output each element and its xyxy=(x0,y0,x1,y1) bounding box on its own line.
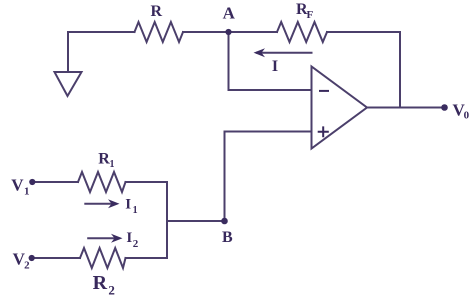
resistor R xyxy=(135,22,184,42)
resistor R2 xyxy=(80,248,126,268)
node A junction dot xyxy=(225,29,231,35)
svg-text:A: A xyxy=(223,4,236,23)
wire V1 to R1 xyxy=(32,181,78,183)
op-amp plus sign xyxy=(319,127,328,136)
wire junction to node B xyxy=(167,220,225,222)
svg-text:1: 1 xyxy=(110,159,115,170)
svg-text:2: 2 xyxy=(108,283,115,298)
svg-text:F: F xyxy=(307,9,314,21)
svg-text:I: I xyxy=(125,197,131,213)
terminal dot V1 xyxy=(29,179,35,185)
resistor RF xyxy=(277,22,327,42)
node B junction dot xyxy=(221,218,228,225)
svg-text:0: 0 xyxy=(464,110,470,122)
resistor R1 xyxy=(78,172,126,192)
wire ground riser xyxy=(68,32,135,72)
arrowhead of I2 xyxy=(111,234,123,243)
svg-text:I: I xyxy=(272,58,278,75)
arrowhead of I1 xyxy=(108,199,120,208)
wire RF to feedback corner xyxy=(327,32,400,108)
svg-text:1: 1 xyxy=(24,186,30,198)
wire R2 to bus xyxy=(126,257,168,259)
current arrow I2 line xyxy=(88,237,116,239)
svg-text:B: B xyxy=(222,229,233,246)
op-amp minus sign xyxy=(320,90,328,92)
svg-text:R: R xyxy=(151,3,163,20)
svg-text:2: 2 xyxy=(24,260,30,272)
wire node B up to non-inverting input xyxy=(225,132,312,222)
op-amp U1 xyxy=(312,67,368,149)
wire op-amp output xyxy=(367,107,444,109)
wire node A down to inverting input xyxy=(229,32,312,90)
wire R1 to bus xyxy=(126,181,168,183)
svg-text:R: R xyxy=(98,150,110,167)
wire R to node A xyxy=(183,31,229,33)
wire vertical bus R1-R2 xyxy=(166,182,168,258)
terminal dot V0 xyxy=(441,104,448,111)
terminal dot V2 xyxy=(29,255,35,261)
arrowhead of I xyxy=(254,48,266,57)
wire node A to RF xyxy=(229,31,278,33)
svg-text:1: 1 xyxy=(133,205,138,216)
svg-text:I: I xyxy=(126,230,132,246)
wire V2 to R2 xyxy=(32,257,80,259)
svg-text:2: 2 xyxy=(133,238,139,250)
ground xyxy=(55,72,82,96)
current arrow I1 line xyxy=(85,203,113,205)
svg-text:R: R xyxy=(93,272,108,294)
current arrow I line xyxy=(257,52,312,54)
svg-text:V: V xyxy=(11,176,24,195)
